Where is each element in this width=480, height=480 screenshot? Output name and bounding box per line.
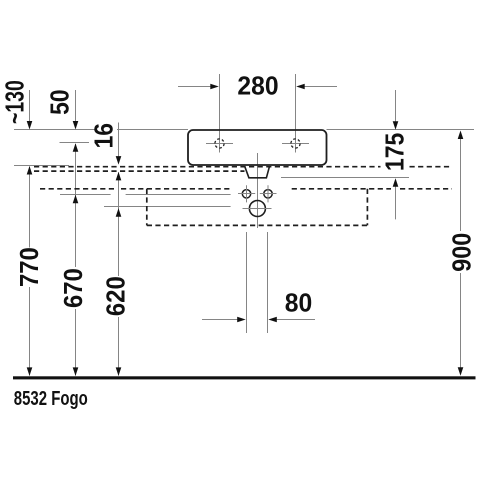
arrowheads <box>27 84 464 376</box>
reference line 620 level <box>104 206 231 208</box>
center line drain <box>257 153 259 228</box>
arrow 620 up <box>116 208 122 217</box>
dimension line 80 <box>202 319 315 321</box>
svg-text:620: 620 <box>102 276 131 316</box>
reference line 670 level <box>60 194 231 196</box>
arrow 175 bottom-up <box>393 178 399 187</box>
dashed circle faucet hole left <box>215 139 224 148</box>
svg-text:670: 670 <box>59 268 88 308</box>
arrow 900 floor <box>458 367 464 376</box>
arrow 50 top <box>73 121 79 130</box>
extension line faucet left <box>219 74 221 137</box>
arrow 16 top <box>116 156 122 165</box>
crosshair faucet hole left <box>206 135 233 153</box>
dimension 175 vertical <box>395 90 397 219</box>
arrow 770 floor <box>27 367 33 376</box>
dimension 900 vertical <box>460 139 462 368</box>
drain hole crosshair <box>243 208 272 210</box>
extension line faucet right <box>295 74 297 137</box>
svg-text:900: 900 <box>448 233 476 272</box>
hidden rectangle right edge <box>366 189 368 226</box>
hidden edge dashed long <box>40 188 452 190</box>
arrow 670 floor <box>73 367 79 376</box>
arrow 175 top <box>393 121 399 130</box>
fixing hole crosshairs <box>238 185 277 202</box>
drain outlet trapezoid <box>245 166 270 178</box>
arrow 900 top <box>458 131 464 140</box>
extension line ~130/770 vertical <box>29 90 31 376</box>
arrow 80 left <box>237 317 246 323</box>
crosshair faucet hole right <box>282 135 309 153</box>
reference line 50 lower <box>60 142 90 144</box>
hidden console edge dashed row 2 <box>34 170 245 172</box>
arrow 50 bottom-up <box>73 143 79 152</box>
arrow 620 floor <box>116 367 122 376</box>
arrow ~130 top <box>27 121 33 130</box>
fixing hole left <box>242 190 250 198</box>
svg-text:770: 770 <box>15 247 44 287</box>
arrow 280 left <box>210 84 219 90</box>
floor line <box>13 376 476 379</box>
reference line 175 lower <box>281 177 409 179</box>
svg-text:16: 16 <box>90 123 119 148</box>
fixing hole right <box>264 190 272 198</box>
extension line 50/670 vertical <box>75 90 77 376</box>
hidden console edge dashed row 1 <box>34 166 452 168</box>
reference line top (900 level) <box>14 129 474 131</box>
dimension 80 extension lines <box>247 232 268 333</box>
arrow ~130/770 bottom-up <box>27 166 33 175</box>
arrow 670 up <box>73 195 79 204</box>
dimension line 280 <box>178 86 337 88</box>
extension line 16/620 vertical <box>118 123 120 376</box>
svg-text:175: 175 <box>381 133 410 171</box>
washbasin front outline <box>188 130 327 165</box>
svg-text:50: 50 <box>46 89 75 114</box>
svg-text:80: 80 <box>285 289 312 318</box>
svg-text:8532 Fogo: 8532 Fogo <box>14 387 88 410</box>
arrow 16 bottom-up <box>116 172 122 181</box>
arrow 280 right <box>296 84 305 90</box>
dashed circle faucet hole right <box>291 139 300 148</box>
reference line 770 level left <box>14 165 69 167</box>
hidden rectangle bottom edge <box>147 224 368 226</box>
drain hole <box>249 201 265 217</box>
arrow 80 right <box>268 317 277 323</box>
svg-text:280: 280 <box>237 72 278 101</box>
svg-text:~130: ~130 <box>0 80 29 124</box>
hidden rectangle left edge <box>146 189 148 226</box>
